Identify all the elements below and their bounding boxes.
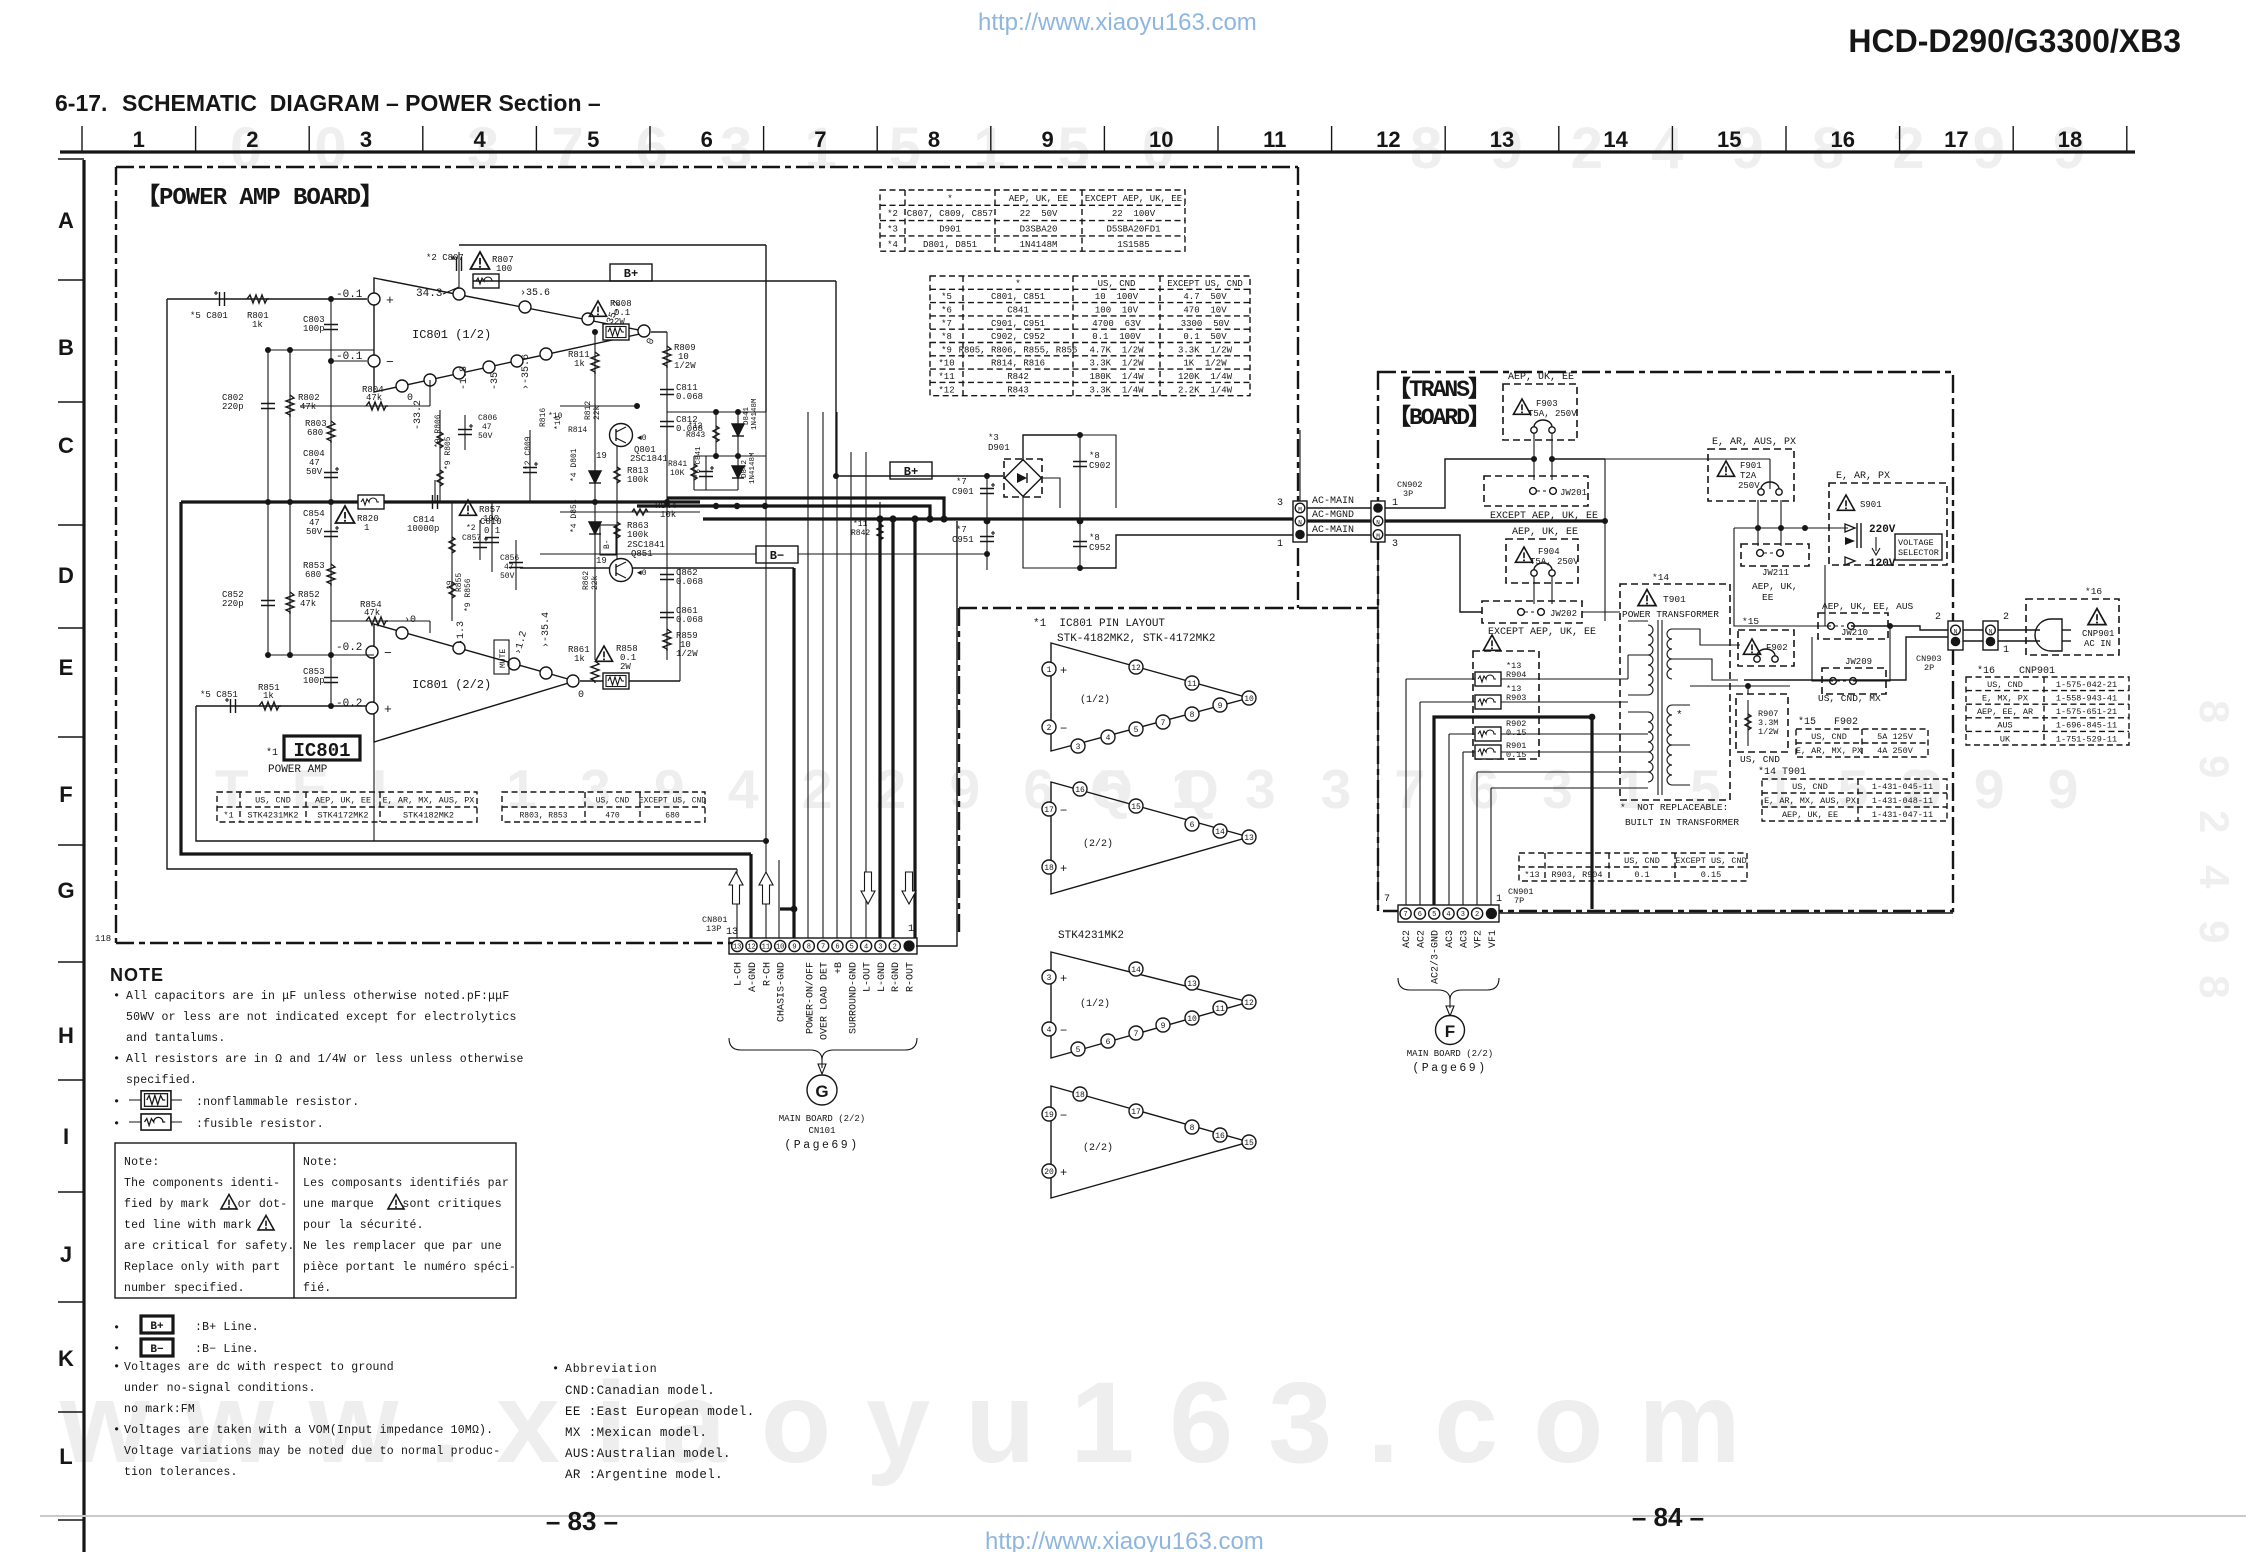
svg-text:2: 2 [246, 127, 258, 152]
wire bus y506 thick upper [637, 506, 930, 519]
svg-text:2: 2 [1047, 724, 1052, 733]
svg-text:(2/2): (2/2) [1083, 1142, 1113, 1154]
jumper JW210 dashed box [1818, 613, 1888, 639]
AC plug CNP901 dashed box [2026, 599, 2119, 655]
transformer T901 dashed box [1620, 584, 1730, 800]
resistor R859 10 1/2W [663, 629, 671, 651]
svg-text:◄0: ◄0 [637, 434, 647, 443]
svg-text:*11: *11 [853, 520, 868, 529]
svg-text:470 10V: 470 10V [1183, 305, 1227, 315]
svg-text:R812: R812 [584, 401, 593, 420]
svg-text:118: 118 [95, 934, 111, 944]
TRANS BOARD border [1378, 372, 1953, 911]
svg-text:3300 50V: 3300 50V [1181, 319, 1230, 329]
svg-text:1/2W: 1/2W [1758, 727, 1779, 737]
svg-text:1k: 1k [574, 359, 585, 369]
svg-text:N: N [1298, 520, 1302, 527]
svg-text:3.3K 1/2W: 3.3K 1/2W [1178, 345, 1233, 355]
transformer primary winding coils [1648, 625, 1653, 695]
svg-text:CN101: CN101 [808, 1126, 835, 1136]
jumper JW209 dashed box [1822, 668, 1886, 694]
resistor R853 680 [327, 564, 335, 586]
svg-text:US, CND: US, CND [1740, 754, 1780, 765]
svg-text:1K 1/2W: 1K 1/2W [1183, 359, 1227, 369]
svg-text:Ne les remplacer que par une: Ne les remplacer que par une [303, 1240, 502, 1253]
capacitor C806 symbol [458, 424, 473, 435]
svg-text:›-35.4: ›-35.4 [541, 612, 552, 648]
svg-text:47: 47 [482, 423, 492, 432]
wire output2 to right [580, 680, 680, 682]
svg-text:Note:: Note: [303, 1156, 339, 1169]
wire tap junctions [1627, 655, 1629, 679]
svg-text:are critical for safety.: are critical for safety. [124, 1240, 294, 1253]
svg-text:+: + [1060, 972, 1067, 986]
svg-text:*16 CNP901: *16 CNP901 [1977, 665, 2055, 677]
table R903 R904 variants [1519, 853, 1747, 881]
wire L input [167, 298, 367, 300]
svg-text:1-431-047-11: 1-431-047-11 [1872, 810, 1933, 820]
safety note warn marks english [221, 1195, 237, 1209]
svg-text:−: − [384, 646, 392, 661]
svg-text:10: 10 [1187, 1015, 1197, 1024]
svg-text:1N4148M: 1N4148M [1020, 240, 1058, 250]
svg-text:8 9 2 4 9 8: 8 9 2 4 9 8 [2191, 700, 2238, 1009]
svg-text:N: N [1954, 629, 1958, 636]
svg-text:1k: 1k [252, 320, 263, 330]
resistor R844 10k in series [560, 511, 700, 513]
svg-text:*2: *2 [466, 524, 476, 533]
svg-text:R842: R842 [1007, 372, 1029, 382]
wire x957 riser from CN801 pin1 [916, 521, 957, 946]
svg-text:12: 12 [1131, 664, 1141, 673]
svg-text:7P: 7P [1514, 896, 1524, 906]
svg-text:2SC1841: 2SC1841 [630, 454, 668, 464]
resistor R806 symbol [439, 410, 441, 502]
svg-text:L: L [59, 1444, 72, 1469]
svg-text:120V: 120V [1869, 558, 1896, 570]
svg-text:680: 680 [307, 428, 323, 438]
svg-text:E: E [59, 655, 74, 680]
svg-text:C902, C952: C902, C952 [991, 332, 1045, 342]
resistor R805 symbol [437, 470, 443, 486]
svg-text:S901: S901 [1860, 500, 1882, 510]
svg-text:*1: *1 [223, 811, 233, 821]
resistor R863 100k [616, 502, 618, 560]
capacitor C851 input [225, 698, 236, 713]
op-amp IC801 (2/2) top edge pins [396, 627, 408, 639]
fusible resistor R820 on mid bus [358, 495, 384, 509]
svg-text:*3: *3 [887, 224, 898, 234]
svg-text:16: 16 [1831, 127, 1855, 152]
jumper JW201 dashed box [1484, 476, 1588, 506]
svg-text::nonflammable resistor.: :nonflammable resistor. [196, 1096, 359, 1109]
svg-text:7: 7 [1161, 719, 1166, 728]
wire B- line [540, 553, 756, 555]
net label B+ box top [610, 264, 652, 281]
svg-text:F: F [59, 782, 72, 807]
svg-text:1N4148M: 1N4148M [749, 452, 757, 484]
resistor R809 10 1/2W [663, 346, 671, 368]
wire bridge right to bus [1041, 478, 1060, 508]
svg-text:R803, R853: R803, R853 [519, 811, 567, 820]
svg-text:F904: F904 [1538, 547, 1560, 557]
table T901 part numbers [1762, 779, 1947, 821]
svg-text:−: − [1060, 1109, 1067, 1123]
svg-text:◄0: ◄0 [637, 569, 647, 578]
svg-text:R842: R842 [851, 529, 870, 538]
table R803 R853 variants [502, 792, 705, 822]
switch S901 dashed box [1829, 483, 1947, 565]
wire drop to JW210 net [1734, 528, 1831, 626]
top ruler baseline [60, 150, 2135, 153]
inter-board connector symbol G [807, 1075, 837, 1105]
svg-text:7: 7 [1403, 911, 1407, 919]
svg-text:C902: C902 [1089, 461, 1111, 471]
table parts variants *2-*4 [880, 190, 1185, 251]
svg-text:* NOT REPLACEABLE:: * NOT REPLACEABLE: [1620, 802, 1728, 813]
svg-text:*1: *1 [266, 747, 278, 759]
svg-text:47k: 47k [300, 402, 316, 412]
svg-text:AC-MAIN: AC-MAIN [1312, 525, 1354, 536]
svg-text:2P: 2P [1924, 663, 1934, 673]
svg-text:R814: R814 [568, 426, 587, 435]
svg-text:R843: R843 [686, 431, 705, 440]
junction dots on y506 bus [713, 503, 719, 509]
svg-text:I: I [63, 1124, 69, 1149]
svg-text:•: • [113, 1095, 120, 1109]
svg-text:›35.6: ›35.6 [520, 288, 550, 299]
svg-text:US, CND: US, CND [1987, 680, 2023, 690]
svg-text:10k: 10k [660, 510, 676, 520]
capacitor C811 0.068 [660, 390, 674, 395]
svg-text:20: 20 [1044, 1168, 1054, 1177]
connector CN903 mating body [1983, 621, 1998, 650]
svg-text:7: 7 [814, 127, 826, 152]
svg-text:MAIN BOARD (2/2): MAIN BOARD (2/2) [779, 1114, 865, 1124]
svg-text:100k: 100k [627, 475, 649, 485]
resistor R843 *12 [713, 426, 719, 442]
svg-text:2W: 2W [620, 662, 631, 672]
svg-text:220V: 220V [1869, 524, 1896, 536]
svg-text:C841: C841 [1007, 305, 1029, 315]
table CNP901 part numbers [1966, 677, 2129, 745]
svg-text:(Page69): (Page69) [1412, 1062, 1487, 1075]
resistor R851 1k [259, 702, 281, 710]
svg-text:CNP901: CNP901 [2082, 629, 2114, 639]
svg-text:R841: R841 [668, 460, 687, 469]
svg-text:F: F [1445, 1022, 1455, 1041]
svg-text:IC801 (1/2): IC801 (1/2) [412, 328, 491, 342]
pin layout op-amp STK4231 (1/2) lower [1051, 952, 1249, 1058]
svg-text:number specified.: number specified. [124, 1282, 245, 1295]
svg-text:AC2: AC2 [1402, 930, 1413, 948]
wire top rail drop at x766 [765, 245, 767, 412]
wire bridge top to C902 [1023, 435, 1080, 461]
svg-text:3: 3 [360, 127, 372, 152]
svg-text:50WV or less are not indicated: 50WV or less are not indicated except fo… [126, 1011, 517, 1024]
svg-text:*14 T901: *14 T901 [1758, 766, 1806, 778]
svg-text:E, AR, AUS, PX: E, AR, AUS, PX [1712, 437, 1796, 448]
svg-text:4.7K 1/2W: 4.7K 1/2W [1089, 345, 1144, 355]
svg-text:100p: 100p [303, 676, 325, 686]
svg-text:*5 C851: *5 C851 [200, 690, 238, 700]
svg-text:15: 15 [1717, 127, 1741, 152]
resistor R803 680 [327, 421, 335, 443]
svg-text:A-GND: A-GND [748, 962, 759, 992]
svg-text:AC3: AC3 [1459, 930, 1470, 948]
resistor R857 100 warn [459, 500, 476, 515]
svg-text:E, AR, MX, PX: E, AR, MX, PX [1796, 746, 1862, 756]
capacitor C807 at top [451, 256, 462, 271]
svg-text:JW209: JW209 [1845, 657, 1872, 667]
svg-text:50V: 50V [306, 527, 323, 537]
svg-text:C: C [58, 433, 74, 458]
svg-text:MX :Mexican model.: MX :Mexican model. [565, 1426, 707, 1440]
plug warning and labels [2088, 609, 2106, 625]
svg-text:0: 0 [578, 690, 584, 701]
POWER AMP BOARD border right edge lower [1297, 548, 1299, 608]
op-amp IC801 (1/2) input pin - [368, 355, 380, 367]
svg-text:4: 4 [1446, 911, 1450, 919]
svg-text:6: 6 [701, 127, 713, 152]
wire feedback middle rectangle [181, 502, 751, 854]
svg-text:5: 5 [1134, 726, 1139, 735]
svg-text:13: 13 [1244, 834, 1254, 843]
svg-text:R-OUT: R-OUT [906, 962, 917, 992]
resistor R801 1k [247, 295, 269, 303]
diode D851 [589, 522, 601, 534]
svg-text:22 50V: 22 50V [1020, 209, 1058, 219]
capacitor C856 symbol [509, 563, 523, 568]
svg-text:10K: 10K [670, 469, 685, 478]
svg-text:0.068: 0.068 [676, 577, 703, 587]
resistor R813 100k [616, 446, 618, 502]
svg-text:Les composants identifiés par: Les composants identifiés par [303, 1177, 509, 1190]
svg-text:VOLTAGE: VOLTAGE [1898, 538, 1934, 548]
resistor R808 0.1 2W nonflammable [589, 301, 606, 316]
svg-text:17: 17 [1944, 127, 1968, 152]
svg-text:US, CND: US, CND [1624, 856, 1660, 866]
svg-text:1-575-042-21: 1-575-042-21 [2056, 680, 2117, 690]
svg-text:(1/2): (1/2) [1080, 694, 1110, 706]
svg-text:AC IN: AC IN [2084, 639, 2111, 649]
svg-text:5: 5 [587, 127, 599, 152]
connector main-board AC 3P body [1293, 501, 1307, 542]
svg-text:– POWER Section –: – POWER Section – [386, 90, 601, 116]
capacitor C901 *7 [980, 483, 995, 494]
wire bus y535 to pin1 [1080, 535, 1293, 568]
op-amp IC801 (1/2) triangle [374, 278, 649, 392]
svg-text:0.1 100V: 0.1 100V [1092, 332, 1141, 342]
wire JW211 bus to S901 [1734, 527, 1848, 529]
wire stub C814 to C810 [434, 480, 436, 502]
svg-text:E, AR, MX, AUS, PX: E, AR, MX, AUS, PX [383, 796, 475, 806]
svg-text:*9: *9 [941, 345, 952, 355]
svg-text:*13: *13 [1524, 870, 1539, 880]
svg-text:Note:: Note: [124, 1156, 160, 1169]
svg-text:8: 8 [807, 944, 811, 952]
pin layout op-amp STK (2/2) upper [1051, 782, 1249, 894]
svg-text:120K 1/4W: 120K 1/4W [1178, 372, 1233, 382]
svg-text:Voltage variations may be note: Voltage variations may be noted due to n… [124, 1445, 500, 1458]
svg-text:470: 470 [605, 811, 620, 820]
capacitor C952 *8 [1073, 542, 1087, 547]
svg-text:2: 2 [1935, 612, 1941, 623]
svg-text:19: 19 [596, 556, 607, 566]
svg-text:100: 100 [483, 514, 499, 524]
wire S901 drop to JW210 [1825, 565, 1831, 626]
svg-text:•: • [113, 1423, 120, 1437]
svg-text:R805, R806, R855, R856: R805, R806, R855, R856 [959, 345, 1078, 355]
pin layout op-amp STK (1/2) upper [1051, 643, 1249, 751]
capacitor C804 47 50V [324, 467, 339, 478]
wire JW202 to transformer [1582, 611, 1620, 613]
svg-text:All resistors are in Ω and 1/4: All resistors are in Ω and 1/4W or less … [126, 1053, 524, 1066]
svg-text:AUS: AUS [1997, 721, 2012, 731]
resistor R807 100 fusible [471, 252, 490, 269]
svg-text:E, AR, PX: E, AR, PX [1836, 471, 1890, 482]
svg-text:47k: 47k [366, 393, 382, 403]
svg-text:2: 2 [1475, 911, 1479, 919]
svg-text:1-751-529-11: 1-751-529-11 [2056, 734, 2117, 744]
table F902 ratings [1796, 729, 1928, 757]
svg-text:*12: *12 [938, 385, 954, 395]
POWER AMP BOARD border right edge upper [1297, 167, 1299, 501]
svg-text:EXCEPT US, CND: EXCEPT US, CND [1675, 856, 1746, 866]
resistor R842 *11 [879, 502, 881, 560]
svg-text:T901: T901 [1663, 594, 1686, 605]
junction dots left columns [265, 347, 271, 353]
svg-text:-0.2: -0.2 [336, 642, 362, 654]
signal flow arrow up pin11 [759, 872, 773, 904]
svg-text:47k: 47k [300, 599, 316, 609]
wire CN902 pin1 to fuse loop [1385, 459, 1534, 508]
svg-text:100: 100 [496, 264, 512, 274]
svg-text:T5A, 250V: T5A, 250V [1530, 557, 1579, 567]
pin layout section border horizontal [959, 607, 1378, 609]
svg-text:STK4182MK2: STK4182MK2 [403, 811, 454, 821]
svg-text:F902: F902 [1766, 643, 1788, 653]
signal flow arrow down L-OUT [861, 872, 875, 904]
svg-text:180K 1/4W: 180K 1/4W [1089, 372, 1144, 382]
resistor R852 47k [286, 592, 294, 614]
svg-text:17: 17 [1131, 1108, 1141, 1117]
svg-text:1: 1 [1047, 666, 1052, 675]
resistor R858 0.1 2W nonflammable [595, 646, 612, 661]
wire CN902 riser down [1377, 542, 1379, 911]
svg-text:CND:Canadian model.: CND:Canadian model. [565, 1384, 715, 1398]
wire y568 to thick dropper [520, 567, 794, 569]
svg-text:•: • [552, 1362, 559, 1376]
POWER AMP BOARD border top edge [116, 166, 1298, 168]
svg-text:R903, R904: R903, R904 [1551, 870, 1602, 880]
capacitor C951 *7 [980, 531, 995, 542]
fusible resistor R902 [1475, 727, 1501, 741]
IC801 designator box [284, 736, 360, 760]
svg-text:SURROUND-GND: SURROUND-GND [848, 962, 859, 1034]
POWER AMP BOARD border left edge [115, 167, 117, 943]
svg-text:EXCEPT US, CND: EXCEPT US, CND [639, 796, 706, 805]
svg-text:US, CND: US, CND [1792, 782, 1828, 792]
svg-text:B−: B− [770, 549, 784, 563]
pin layout section border vertical [958, 608, 960, 932]
svg-text:*3: *3 [988, 433, 999, 443]
svg-text:EE :East European model.: EE :East European model. [565, 1405, 755, 1419]
svg-text:1: 1 [364, 523, 369, 533]
wires F904 to JW202 [1533, 576, 1535, 604]
resistor R811 1k [594, 332, 596, 502]
svg-text::fusible resistor.: :fusible resistor. [196, 1118, 324, 1131]
svg-text:*: * [1676, 710, 1683, 722]
svg-text:3.3K 1/2W: 3.3K 1/2W [1089, 359, 1144, 369]
svg-text:-35: -35 [490, 372, 501, 390]
svg-text:1: 1 [908, 924, 914, 935]
wire output2 riser to y568 line [679, 568, 681, 681]
svg-text:1k: 1k [263, 691, 274, 701]
wire mid horizontal bus thick [181, 500, 700, 503]
svg-text:C901: C901 [952, 487, 974, 497]
svg-text:12: 12 [747, 944, 755, 952]
svg-text:2: 2 [893, 944, 897, 952]
svg-text:EE: EE [1762, 592, 1774, 603]
svg-text:C807, C809, C857: C807, C809, C857 [907, 209, 993, 219]
svg-text:4: 4 [1047, 1026, 1052, 1035]
wire B+ rail drop to bridge [836, 281, 1003, 476]
diode D842 1N4148M [732, 466, 744, 478]
svg-text:K: K [58, 1346, 74, 1371]
CN801 long thin risers [807, 412, 809, 938]
svg-text:2: 2 [2003, 612, 2009, 623]
svg-text:ted line with mark: ted line with mark [124, 1219, 252, 1232]
svg-text:1-431-045-11: 1-431-045-11 [1872, 782, 1933, 792]
svg-text:1/2W: 1/2W [676, 649, 698, 659]
transistor Q801 2SC1841 [610, 424, 633, 447]
svg-text:+B: +B [834, 962, 845, 974]
svg-text:AR :Argentine model.: AR :Argentine model. [565, 1468, 723, 1482]
svg-text:3: 3 [878, 944, 882, 952]
svg-text:N: N [1376, 520, 1380, 527]
svg-text:US, CND: US, CND [1811, 732, 1847, 742]
safety note box [115, 1143, 516, 1298]
svg-text:STK4231MK2: STK4231MK2 [1058, 930, 1124, 942]
svg-text:All capacitors are in μF unles: All capacitors are in μF unless otherwis… [126, 990, 509, 1003]
svg-text:9: 9 [1218, 702, 1223, 711]
wire output1 to R809 column [651, 331, 667, 333]
svg-text:1: 1 [133, 127, 145, 152]
svg-text:– 83 –: – 83 – [546, 1506, 618, 1536]
svg-text:*7: *7 [956, 525, 967, 535]
svg-text:Replace only with part: Replace only with part [124, 1261, 280, 1274]
svg-text:*1 IC801 PIN LAYOUT: *1 IC801 PIN LAYOUT [1033, 618, 1165, 630]
svg-text:L-CH: L-CH [734, 962, 745, 986]
op-amp IC801 (2/2) output pin [567, 675, 579, 687]
svg-text:*4: *4 [887, 240, 898, 250]
svg-text:8: 8 [928, 127, 940, 152]
svg-text:C951: C951 [952, 535, 974, 545]
wire bridge bottom [1023, 496, 1080, 568]
svg-text:1/2W: 1/2W [674, 361, 696, 371]
svg-text:– 84 –: – 84 – [1632, 1502, 1704, 1532]
jumper JW211 dashed box [1741, 544, 1809, 566]
svg-text:Voltages are taken with a VOM(: Voltages are taken with a VOM(Input impe… [124, 1424, 493, 1437]
svg-text:C806: C806 [478, 414, 497, 423]
svg-text:*15 F902: *15 F902 [1798, 716, 1858, 728]
svg-text:17: 17 [1044, 806, 1054, 815]
svg-text:L-GND: L-GND [877, 962, 888, 992]
wire bus y498 thick [667, 498, 944, 519]
svg-text:E, MX, PX: E, MX, PX [1982, 693, 2028, 703]
transistor Q851 2SC1841 [610, 559, 633, 582]
